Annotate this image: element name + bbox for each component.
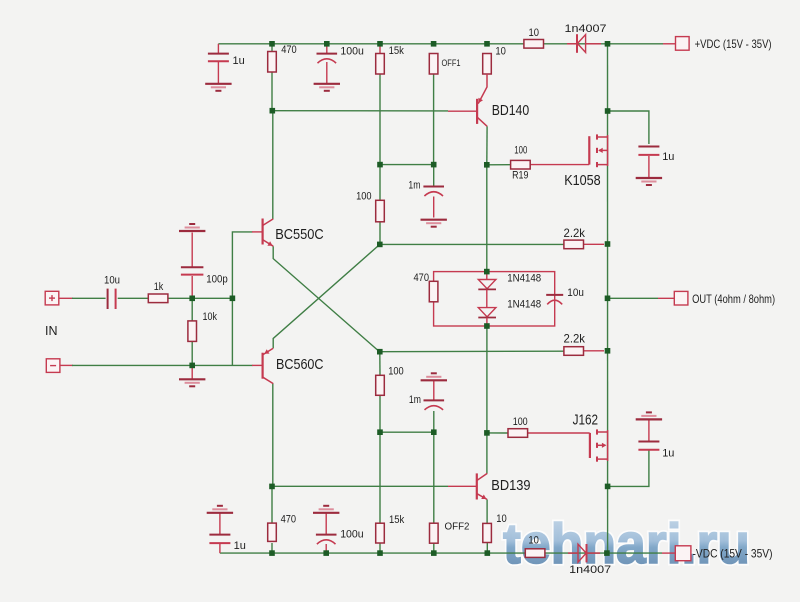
wire IN- stub <box>59 364 73 366</box>
junction top rail / OFF1 <box>431 41 437 47</box>
diode D1 1N4148 <box>478 272 541 290</box>
svg-text:10: 10 <box>496 513 507 525</box>
wire diode box bottom down <box>486 326 488 433</box>
junction gate node J162 <box>484 430 490 436</box>
wire top supply rail <box>218 43 663 45</box>
svg-text:10: 10 <box>495 45 506 57</box>
capacitor 1u bottom-left <box>209 535 230 544</box>
junction out rail / K1058 drain <box>605 108 611 114</box>
wire gate resistor stub lower <box>487 432 508 434</box>
wire 100u-bottom to rail <box>325 544 327 553</box>
wire bottom supply rail <box>220 552 662 554</box>
svg-text:470: 470 <box>281 44 297 56</box>
junction out rail / J162 <box>605 484 611 490</box>
wire IN+ stub <box>59 297 73 299</box>
wire 10u to 1k <box>118 297 149 299</box>
svg-text:2.2k: 2.2k <box>564 332 586 346</box>
resistor 2.2k lower <box>564 332 586 356</box>
svg-text:2.2k: 2.2k <box>564 226 586 240</box>
svg-text:100u: 100u <box>340 529 364 541</box>
wire R19 stub <box>487 164 511 166</box>
wire ground stub input <box>191 365 193 379</box>
resistor 10 top vertical <box>483 45 506 74</box>
ground 1m bottom (flipped) <box>421 373 447 380</box>
wire BD139 base <box>272 485 448 487</box>
capacitor 1m bottom <box>424 400 445 410</box>
MOSFET J162 <box>573 412 608 462</box>
wire 100p upper lead to flipped ground <box>191 233 193 267</box>
junction top rail / 470 <box>269 41 275 47</box>
wire R19 to K1058 gate <box>531 164 590 166</box>
wire BD140 base <box>272 110 448 112</box>
resistor 100 upper-middle <box>356 191 384 222</box>
wire BD140-collector down to diode box <box>486 165 488 272</box>
junction 15k / row164 <box>377 162 383 168</box>
svg-text:1n4007: 1n4007 <box>569 564 611 576</box>
wire 1u bottom-left upper lead <box>219 513 221 534</box>
svg-text:1u: 1u <box>662 448 674 460</box>
wire 15k-top down to node <box>379 74 381 165</box>
wire OUT <box>608 297 658 299</box>
resistor 10 below BD139 <box>483 513 507 543</box>
wire 1u bottom-right to flipped ground <box>648 420 650 442</box>
ground 1u top-left <box>205 84 231 91</box>
wire 1m-top to ground <box>433 197 435 218</box>
wire BD139 base red lead <box>448 485 476 487</box>
resistor OFF2 <box>430 520 470 543</box>
svg-text:470: 470 <box>281 514 297 526</box>
wire to 1u top-right <box>608 111 649 144</box>
wire 1u top-right to ground <box>648 156 650 177</box>
junction bottom rail / OFF2 <box>431 550 437 556</box>
junction upper bias node <box>377 242 383 248</box>
wire node down to BD139 collector <box>486 433 488 474</box>
wire node row y164 <box>380 164 434 166</box>
wire BD140 collector <box>486 126 488 165</box>
terminal IN+ <box>45 291 59 305</box>
resistor 470 top <box>268 44 297 72</box>
wire 15k-bottom column <box>379 432 381 523</box>
wire OUT red stub <box>658 297 674 299</box>
junction bottom rail / 10 <box>485 550 491 556</box>
capacitor 10u bias box <box>546 295 563 305</box>
svg-text:BC550C: BC550C <box>275 227 324 243</box>
terminal -VDC <box>675 546 691 561</box>
svg-text:100u: 100u <box>340 46 364 58</box>
terminal IN- <box>46 359 60 373</box>
terminal OUT <box>674 291 688 305</box>
ground 1u bottom-left (flipped) <box>207 506 233 513</box>
junction lower bias node <box>377 349 383 355</box>
svg-text:10: 10 <box>529 27 540 39</box>
wire OFF1 down to node <box>433 74 435 165</box>
resistor 15k bottom <box>376 514 405 543</box>
junction diode box bottom <box>484 323 490 329</box>
svg-text:1N4148: 1N4148 <box>507 272 541 284</box>
resistor 470 bottom <box>268 514 296 542</box>
ground 1m top <box>421 220 447 227</box>
wire BC550C emitter diagonal <box>273 246 380 352</box>
MOSFET K1058 <box>564 134 607 189</box>
svg-text:BD140: BD140 <box>492 102 530 119</box>
svg-text:100: 100 <box>388 366 404 378</box>
svg-text:BC560C: BC560C <box>276 357 324 373</box>
watermark tehnari.ru <box>503 512 750 576</box>
svg-text:1u: 1u <box>662 151 674 163</box>
ground 100u top <box>314 84 340 91</box>
wire 470-top column <box>271 46 273 111</box>
junction node A input <box>189 296 195 302</box>
svg-text:1u: 1u <box>234 540 246 552</box>
ground 1u top-right <box>636 178 662 185</box>
wire 100 to J162 gate <box>528 432 590 434</box>
bias network box <box>434 272 555 326</box>
svg-text:100: 100 <box>356 191 372 203</box>
svg-text:1m: 1m <box>408 180 420 192</box>
svg-text:+VDC (15V - 35V): +VDC (15V - 35V) <box>695 37 772 51</box>
svg-text:OFF1: OFF1 <box>442 58 461 68</box>
svg-text:1N4148: 1N4148 <box>507 299 541 311</box>
svg-text:OFF2: OFF2 <box>445 520 470 532</box>
svg-text:100p: 100p <box>206 274 228 286</box>
ground 100u bottom (flipped) <box>313 506 339 513</box>
capacitor 1u top-left <box>208 54 229 62</box>
resistor 470 bias box <box>414 272 438 302</box>
ground input <box>179 379 205 386</box>
junction top rail / 15k <box>377 41 383 47</box>
svg-text:1u: 1u <box>233 55 245 67</box>
wire OFF2 column <box>433 432 435 523</box>
wire output rail vertical <box>607 44 609 553</box>
junction out rail / OUT <box>605 296 611 302</box>
svg-text:15k: 15k <box>389 45 405 57</box>
junction top rail / 10 <box>484 41 490 47</box>
junction 100 / row432 <box>377 429 383 435</box>
wire 100-lower resistor column <box>379 352 381 376</box>
wire 100u-top to ground <box>326 62 328 83</box>
wire node to 100-upper <box>379 165 381 201</box>
ground 1u bottom-right (flipped) <box>636 412 662 419</box>
svg-text:K1058: K1058 <box>564 172 601 189</box>
capacitor 1u top-right <box>638 147 659 155</box>
resistor 1k input <box>148 281 168 303</box>
svg-text:10k: 10k <box>203 311 218 323</box>
wire 15k-top column <box>379 46 381 54</box>
ground above 100p (flipped) <box>179 224 205 231</box>
svg-text:1m: 1m <box>409 394 421 406</box>
transistor Q4 BC560C PNP <box>263 348 324 383</box>
junction bottom rail / 15k <box>377 550 383 556</box>
wire IN+ to 10u <box>72 297 106 299</box>
resistor 15k top <box>376 45 405 74</box>
svg-text:1n4007: 1n4007 <box>565 23 607 35</box>
wire node A to node B <box>192 297 232 299</box>
resistor 100 gate J162 <box>508 416 528 437</box>
diode 1n4007 bottom <box>568 544 611 576</box>
wire IN- to ground node <box>72 364 253 366</box>
transistor Q3 BC550C NPN <box>263 219 324 247</box>
wire node A to 10k <box>191 298 193 321</box>
junction bottom rail / 100u <box>323 550 329 556</box>
junction top rail / +VDC <box>605 41 611 47</box>
wire 100-upper to diag node <box>379 222 381 245</box>
resistor 2.2k upper <box>564 226 586 249</box>
svg-text:BD139: BD139 <box>491 477 530 494</box>
wire BC560C emitter diagonal <box>273 244 380 348</box>
wire 1m-top lead <box>433 165 435 187</box>
wire bias row upper to 2.2k <box>380 243 564 245</box>
svg-text:100: 100 <box>514 145 527 157</box>
wire 1k to node A <box>169 297 193 299</box>
resistor 10k input <box>188 311 217 341</box>
capacitor 100u bottom <box>316 535 337 545</box>
wire BD139 emitter to 10 <box>486 499 488 523</box>
junction out rail / 2.2k upper <box>605 241 611 247</box>
capacitor 100p <box>181 267 204 274</box>
wire BC560C collector column <box>272 383 274 486</box>
wire 100u-top stub <box>326 46 328 54</box>
wire top rail stub to +VDC terminal <box>663 43 676 45</box>
wire 10k to ground node <box>191 341 193 365</box>
wire bias row lower to 2.2k <box>380 350 564 353</box>
diode 1n4007 top <box>565 23 607 53</box>
wire 1u top-left to ground <box>217 61 219 83</box>
wire 10 to bottom rail <box>486 543 488 554</box>
wire 1u top-left stub <box>217 44 219 53</box>
wire BD140 base red lead <box>448 110 476 112</box>
junction bottom rail / -VDC <box>604 550 610 556</box>
wire 100-lower to node <box>379 395 381 432</box>
wire 1u bottom-left to rail <box>219 543 221 553</box>
terminal +VDC <box>676 37 690 51</box>
wire 470-bottom column <box>271 486 273 523</box>
wire BC550C base red lead <box>252 231 262 233</box>
svg-text:10: 10 <box>528 535 539 547</box>
capacitor 10u input <box>104 275 120 310</box>
wire 2.2k-bottom to out rail <box>584 350 605 352</box>
svg-text:1k: 1k <box>154 281 164 293</box>
wire bottom rail stub to -VDC terminal <box>662 552 675 554</box>
junction BD140 collector / R19 <box>484 162 490 168</box>
svg-text:OUT (4ohm / 8ohm): OUT (4ohm / 8ohm) <box>692 292 775 306</box>
svg-text:10u: 10u <box>567 287 584 299</box>
wire OFF2 to rail <box>433 543 435 553</box>
resistor 10 bottom horizontal <box>525 535 545 558</box>
resistor OFF1 <box>429 54 460 75</box>
junction input ground <box>189 363 195 369</box>
wire 100u-bottom upper lead <box>325 513 327 534</box>
wire 1m-bottom lead <box>433 411 435 432</box>
junction node B input <box>230 296 236 302</box>
wire 1m-bottom to flipped ground <box>433 381 435 401</box>
wire 15k-bottom to rail <box>379 543 381 553</box>
wire node B down to BC560C base <box>231 298 233 365</box>
capacitor 1m top <box>423 187 444 197</box>
resistor R19 100 <box>511 145 531 182</box>
wire node B up to BC550C base <box>232 232 252 298</box>
wire BC550C collector column <box>272 111 274 220</box>
wire BC560C base red lead <box>252 364 262 366</box>
resistor 100 lower-middle <box>376 366 404 396</box>
junction bottom rail / 470 <box>269 550 275 556</box>
transistor Q1 BD140 PNP <box>477 74 529 126</box>
svg-text:470: 470 <box>414 272 430 284</box>
svg-text:100: 100 <box>513 416 528 428</box>
junction BC560C collector / BD139 base <box>269 484 275 490</box>
svg-text:15k: 15k <box>389 514 405 526</box>
wire 2.2k-top to out rail <box>584 243 605 245</box>
svg-text:IN: IN <box>45 324 58 338</box>
capacitor 100u top <box>317 54 338 64</box>
wire 470-bottom to rail <box>271 543 273 553</box>
svg-text:R19: R19 <box>512 169 528 181</box>
junction diode box top <box>484 269 490 275</box>
junction top rail / 100u <box>324 41 330 47</box>
transistor Q2 BD139 NPN <box>477 473 531 499</box>
wire to 1u bottom-right <box>608 451 649 487</box>
junction out rail / 2.2k lower <box>605 348 611 354</box>
svg-text:-VDC (15V - 35V): -VDC (15V - 35V) <box>693 547 773 561</box>
junction OFF1 / 1m top <box>431 162 437 168</box>
diode D2 1N4148 <box>478 289 541 326</box>
wire 100p lower lead <box>191 276 193 298</box>
svg-text:tehnari.ru: tehnari.ru <box>503 512 750 576</box>
wire node row y432 <box>380 431 434 433</box>
junction 1m bottom / row432 <box>431 429 437 435</box>
resistor 10 top horizontal <box>524 27 544 48</box>
junction 470 / BD140 base <box>270 108 276 114</box>
svg-text:J162: J162 <box>573 412 599 429</box>
capacitor 1u bottom-right <box>638 442 659 450</box>
svg-text:10u: 10u <box>104 275 120 287</box>
